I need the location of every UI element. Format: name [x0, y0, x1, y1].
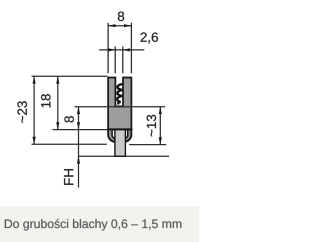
- arrow up ~13: [159, 107, 162, 114]
- label FH (rotated): [64, 169, 73, 185]
- extension line: cavity top level left side: [53, 129, 108, 131]
- body/bulb top separation line: [107, 128, 132, 130]
- dimension line: 8-left / FH shared: [78, 107, 80, 188]
- profile bulb (rounded bottom of clamp): [108, 129, 131, 142]
- extension line: top outer left: [107, 23, 109, 73]
- label ~13 (rotated): [147, 115, 156, 137]
- slot bottom line: [115, 105, 123, 107]
- dimension line: 2,6 (slot width): [99, 49, 144, 51]
- extension line: top outer right: [130, 23, 132, 73]
- dimension line: 18: [57, 76, 59, 129]
- dimension line: 8 (top width): [108, 25, 131, 27]
- extension line: sheet bottom level right segment: [126, 155, 169, 157]
- dimension line: ~23: [33, 76, 35, 144]
- arrow down ~23: [33, 137, 36, 144]
- arrow down 18: [56, 122, 59, 129]
- arrow pointing left at slot-right line: [123, 48, 130, 51]
- extension line: bulb bottom level right side: [129, 144, 166, 146]
- label ~23 (rotated): [17, 101, 26, 123]
- label 8 left (rotated): [64, 116, 73, 122]
- arrow down ~13: [159, 137, 162, 144]
- arrow pointing right at slot-left line: [108, 48, 115, 51]
- label 8 (top): [118, 12, 124, 21]
- extension line: sheet bottom level left segment: [79, 155, 115, 157]
- label 18 (rotated): [41, 94, 50, 107]
- arrow down 8-left: [77, 122, 80, 129]
- arrow left of top 8: [108, 24, 115, 27]
- label 2,6: [141, 32, 158, 43]
- dimension line: ~13: [159, 107, 161, 145]
- faint scan-grey caption band: [0, 206, 199, 242]
- extension line: slot right: [122, 47, 124, 74]
- arrow right of top 8: [124, 24, 131, 27]
- arrow up 8-left: [77, 107, 80, 114]
- arrow up 18: [56, 76, 59, 83]
- arrow up FH: [77, 156, 80, 163]
- extension line: slot left: [114, 47, 116, 74]
- caption: [5, 219, 181, 231]
- arrow up ~23: [33, 76, 36, 83]
- extension line: bulb bottom level left side: [32, 143, 107, 145]
- extension line: slot bottom level across: [75, 106, 166, 108]
- sheet metal (blacha): [115, 130, 126, 157]
- extension line: profile top level: [32, 75, 108, 77]
- bulb inner cavity: [112, 130, 128, 139]
- profile body U-channel: [108, 78, 131, 130]
- serration zigzag inside top slot: [117, 84, 122, 104]
